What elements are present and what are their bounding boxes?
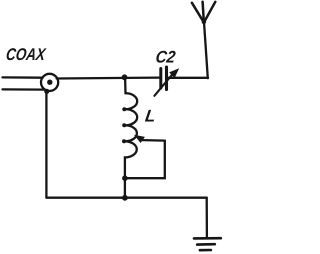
antenna symbol — [192, 2, 215, 23]
coax connector J1 body — [41, 74, 58, 91]
wire ground drop right — [206, 198, 208, 238]
coax connector center pin dot — [47, 80, 52, 85]
wire tap loop right side — [126, 141, 165, 179]
inductor L winding — [125, 78, 137, 198]
capacitor C2 variable arrow — [154, 68, 179, 96]
wire coax shield lead — [3, 88, 46, 90]
antenna mast — [204, 22, 208, 78]
inductor L cusp blob 1 — [122, 107, 126, 111]
junction inductor bottom / bottom bus — [122, 195, 128, 201]
inductor L cusp blob 2 — [122, 123, 126, 127]
antenna apex blob — [202, 20, 206, 24]
wire bottom bus — [46, 197, 206, 199]
inductor L cusp blob 3 — [122, 139, 126, 143]
wire left ground drop (coax shield to bottom bus) — [45, 91, 47, 198]
junction top of inductor L — [122, 74, 128, 80]
wire top bus (coax to C2 left plate) — [57, 76, 160, 79]
junction at coax shield / ground drop — [44, 89, 49, 94]
tap arrow on inductor L — [134, 135, 165, 143]
wire coax center conductor — [3, 76, 43, 79]
svg-text:C2: C2 — [154, 48, 177, 67]
junction tap loop / inductor bottom — [122, 175, 128, 181]
ground symbol — [194, 238, 221, 250]
capacitor C2 left plate — [159, 69, 162, 89]
svg-text:L: L — [144, 106, 157, 125]
svg-text:COAX: COAX — [5, 45, 48, 64]
wire top bus right segment (C2 to antenna) — [168, 77, 209, 79]
capacitor C2 right plate — [165, 67, 168, 90]
